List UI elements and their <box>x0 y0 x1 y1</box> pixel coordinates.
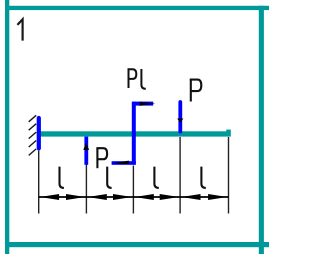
support hatch line 3 <box>29 132 37 139</box>
force P up arrowhead <box>83 143 89 150</box>
label Pl <box>128 69 146 89</box>
dimension arrowhead seg4 right <box>208 194 227 200</box>
frame border right vertical line <box>259 6 264 254</box>
moment Pl top arrowhead (points right) <box>140 102 156 106</box>
extension line tick 3 (at moment) <box>132 166 134 214</box>
force P up arrow shaft <box>84 137 88 165</box>
fixed support wall bar <box>37 118 41 148</box>
support hatch line 5 <box>29 149 37 156</box>
support hatch line 2 <box>29 124 37 131</box>
support hatch line 4 <box>29 141 37 148</box>
extension line tick 4 <box>179 137 181 214</box>
support hatch line 1 <box>29 115 37 122</box>
extension line tick 1 (at support) <box>38 151 40 214</box>
dimension label l seg1 <box>60 167 64 188</box>
extension line tick 2 <box>85 164 87 214</box>
frame border bottom horizontal line <box>5 242 269 247</box>
dimension label l seg2 <box>107 167 111 188</box>
beam <box>39 131 231 136</box>
dimension label l seg4 <box>201 167 205 188</box>
dimension arrowhead seg2 left <box>88 194 107 200</box>
force P down arrowhead <box>177 119 183 123</box>
dimension arrowhead seg2 right <box>113 194 132 200</box>
label P (up force) <box>96 148 107 168</box>
moment Pl bottom arrowhead (points left) <box>112 161 129 164</box>
moment Pl top arm <box>134 102 153 106</box>
dimension arrowhead seg3 right <box>160 194 179 200</box>
dimension arrowhead seg3 left <box>135 194 154 200</box>
label 1 (cell number) <box>17 19 22 40</box>
moment Pl vertical line <box>132 102 136 165</box>
beam right end tick <box>226 130 231 132</box>
frame border left vertical line <box>5 0 9 254</box>
frame border top horizontal line <box>5 6 269 10</box>
force P down arrow shaft <box>178 102 182 132</box>
label P (down force) <box>190 79 202 101</box>
dimension label l seg3 <box>154 167 158 188</box>
dimension arrowhead seg1 left <box>40 194 59 200</box>
moment Pl bottom arm <box>112 161 136 165</box>
dimension line <box>39 196 229 198</box>
dimension arrowhead seg1 right <box>66 194 85 200</box>
dimension arrowhead seg4 left <box>181 194 200 200</box>
extension line tick 5 (beam end) <box>228 137 230 214</box>
